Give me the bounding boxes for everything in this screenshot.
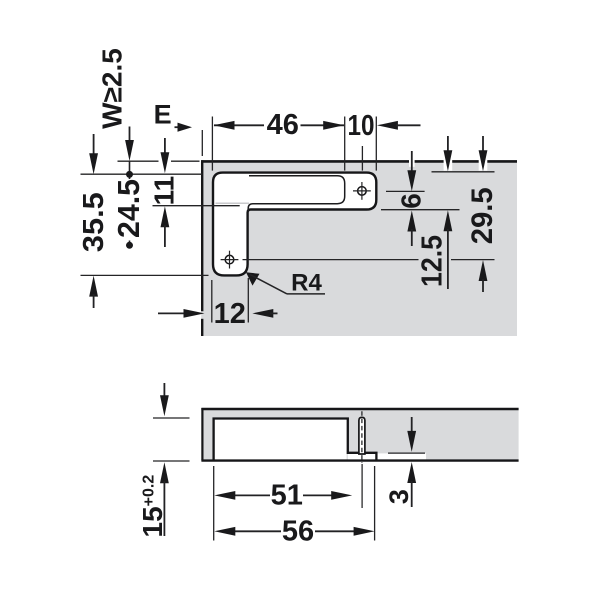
pin dashed centerline — [361, 411, 363, 463]
dimension 35.5 top arrow — [93, 134, 95, 156]
svg-text:12.5: 12.5 — [417, 235, 449, 287]
svg-text:51: 51 — [271, 479, 303, 511]
extension line cutout left — [211, 117, 213, 171]
panel top edge — [201, 160, 517, 163]
svg-text:24.5: 24.5 — [111, 179, 146, 238]
extension line hole H1 — [361, 146, 363, 171]
extension hole H2 centerline right — [243, 259, 419, 261]
dimension 46 line — [214, 124, 264, 126]
white strip right of lip — [378, 453, 427, 459]
svg-text:R4: R4 — [291, 270, 322, 297]
svg-text:10: 10 — [348, 110, 375, 142]
extension line panel left edge (top) — [201, 130, 203, 156]
faint pocket line across slot — [216, 202, 250, 204]
panel left edge — [201, 160, 203, 311]
dimension 6 bottom arrow — [407, 211, 416, 232]
dimension 12 extension lines — [211, 280, 213, 323]
white gap in panel edge at 6 stem — [409, 158, 415, 167]
dimension E arrow — [175, 126, 181, 128]
dimension 15 top arrow — [163, 383, 165, 399]
svg-text:46: 46 — [267, 109, 299, 141]
dimension 12.5 top arrow — [447, 136, 449, 153]
white gap in panel edge at 12.5 stem — [444, 158, 453, 170]
extension line pocket step — [344, 117, 346, 171]
white gap in panel edge at 29.5 stem — [479, 158, 488, 170]
section pocket white — [215, 420, 347, 461]
svg-text:29.5: 29.5 — [466, 187, 499, 244]
section lip mouth white — [348, 454, 376, 460]
dimension 24.5 line and dots — [129, 162, 131, 180]
dimension 12 left arrow — [158, 312, 186, 314]
dimension 15 bottom reference line — [153, 460, 190, 462]
L-shaped cutout outline — [213, 173, 376, 276]
extension of slot bottom to left — [81, 274, 209, 276]
section gray body — [201, 408, 518, 460]
dimension 12 right arrow — [252, 309, 273, 318]
W arrow — [129, 127, 131, 145]
dimension 6 top arrow — [411, 151, 413, 174]
dimension 10 right outside arrow — [377, 121, 398, 130]
extension of cutout top edge to left — [81, 173, 203, 175]
hole H2 circle — [225, 255, 234, 264]
dimension 3 bottom arrow — [407, 462, 416, 483]
section pocket outline — [214, 419, 377, 461]
extension cutout top to right — [432, 171, 495, 173]
dimension 35.5 bottom arrow — [89, 276, 98, 297]
section bottom edge — [201, 459, 518, 461]
inner deep-pocket step line — [248, 176, 345, 211]
hole H2 crosshair — [221, 259, 239, 261]
dimension 15 top reference line — [153, 417, 190, 419]
R4 leader arrow — [246, 272, 260, 285]
svg-text:56: 56 — [282, 515, 314, 547]
extension line lip right below — [374, 466, 376, 541]
dimension 46 arrowheads — [214, 121, 235, 130]
dimension 11 bottom arrow — [161, 206, 170, 227]
extension hole H1 centerline right — [386, 190, 425, 192]
dimension 15+0.2 label — [137, 475, 168, 538]
pin centerline extension below — [361, 464, 363, 508]
reference line for 11 — [153, 205, 240, 207]
svg-text:6: 6 — [396, 193, 427, 209]
svg-text:12: 12 — [214, 298, 246, 330]
svg-text:W≥2.5: W≥2.5 — [97, 48, 128, 129]
svg-text:3: 3 — [384, 489, 414, 504]
svg-text:11: 11 — [148, 176, 179, 206]
dimension 56 line — [226, 530, 281, 532]
extension line pocket left below — [213, 466, 215, 541]
svg-text:15+0.2: 15+0.2 — [137, 475, 168, 538]
hole H1 crosshair — [353, 190, 371, 192]
reference line for 3 — [388, 452, 425, 454]
dimension 29.5 top arrow — [482, 136, 484, 153]
section left edge — [201, 408, 203, 460]
dimension 12.5 bottom arrow — [444, 210, 453, 231]
section top edge — [201, 408, 518, 411]
extension slot bottom right — [381, 209, 460, 211]
pin body — [359, 417, 365, 454]
extension line cutout right end — [375, 117, 377, 171]
dimension 56 arrowheads — [214, 527, 235, 536]
svg-text:35.5: 35.5 — [78, 192, 110, 252]
dimension 51 arrowheads — [214, 491, 235, 500]
extension of panel top edge to left — [118, 160, 159, 162]
dimension 3 top arrow — [411, 417, 413, 435]
dimension 51 line — [226, 494, 270, 496]
panel top-view gray body — [201, 160, 517, 336]
svg-text:E: E — [154, 100, 172, 130]
dimension 15 bottom arrow — [160, 462, 169, 483]
dimension 11 top arrow — [164, 138, 166, 156]
hole H1 circle — [358, 187, 367, 196]
dimension 29.5 bottom arrow — [479, 260, 488, 281]
